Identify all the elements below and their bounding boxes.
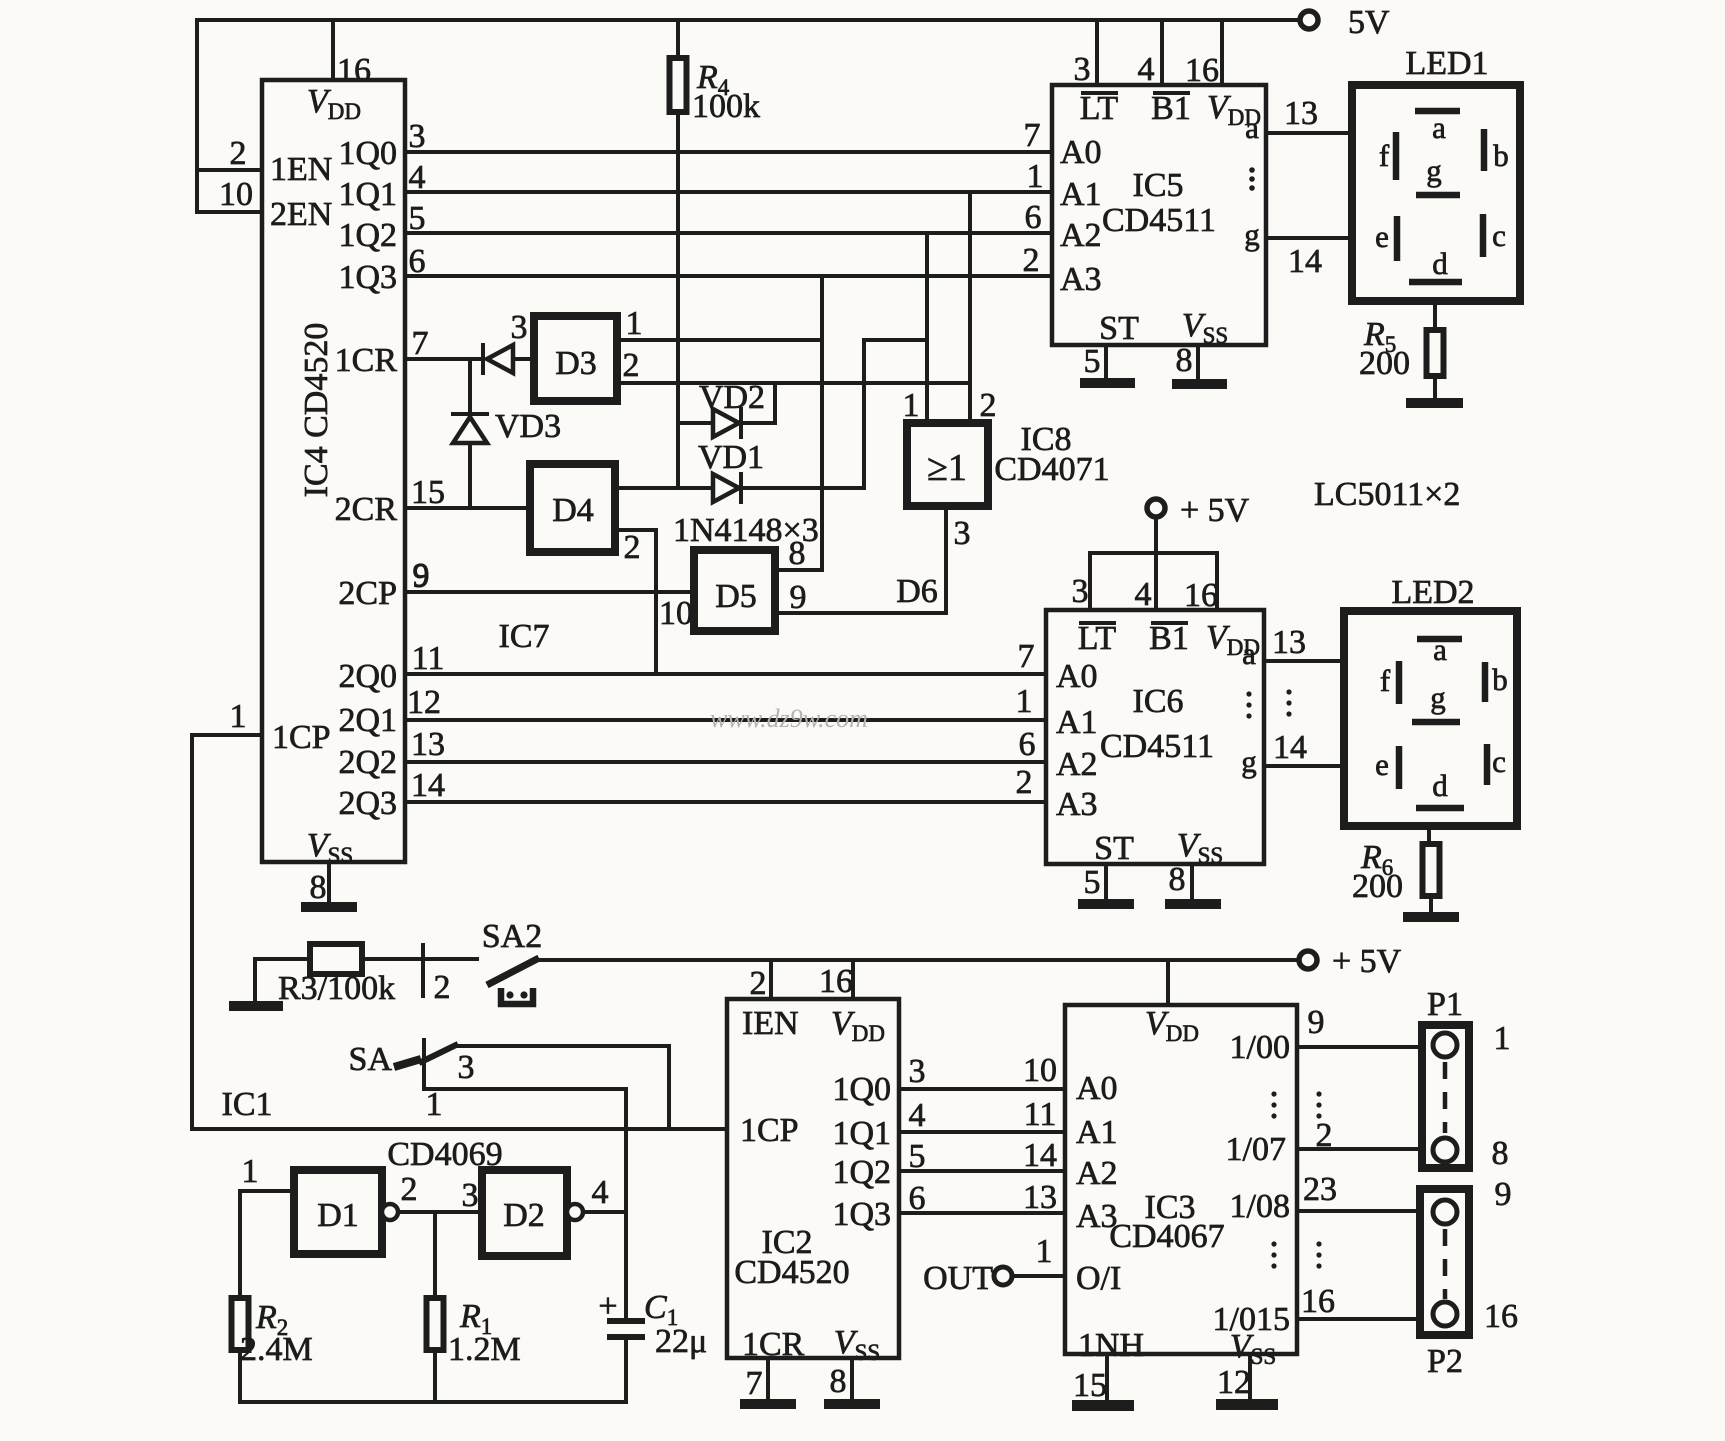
- ground IC2 pin8: [824, 1399, 880, 1409]
- node 5V terminal: [1300, 11, 1318, 29]
- svg-text:A2: A2: [1076, 1155, 1118, 1192]
- svg-text:2: 2: [624, 529, 641, 566]
- svg-text:4: 4: [909, 1097, 926, 1134]
- connector P1: [1422, 1025, 1469, 1168]
- resistor R1: [433, 1212, 437, 1298]
- svg-text:a: a: [1245, 110, 1259, 145]
- svg-text:5V: 5V: [1348, 4, 1390, 41]
- svg-text:5: 5: [909, 1138, 926, 1175]
- wire 1Q1 to IC5 A1: [405, 190, 1052, 194]
- svg-text:1CP: 1CP: [272, 719, 331, 756]
- svg-text:3: 3: [462, 1177, 479, 1214]
- svg-text:A3: A3: [1056, 786, 1098, 823]
- svg-text:2: 2: [623, 347, 640, 384]
- svg-text:15: 15: [1073, 1367, 1107, 1404]
- svg-text:a: a: [1242, 636, 1256, 671]
- svg-text:A1: A1: [1056, 704, 1098, 741]
- svg-text:LC5011×2: LC5011×2: [1314, 476, 1460, 513]
- svg-text:1/07: 1/07: [1226, 1131, 1286, 1168]
- ground IC5 pin8: [1172, 379, 1227, 389]
- svg-text:VD2: VD2: [699, 379, 765, 416]
- svg-text:A1: A1: [1076, 1114, 1118, 1151]
- svg-text:1CR: 1CR: [742, 1326, 805, 1363]
- svg-text:LT: LT: [1080, 90, 1119, 127]
- IC2 CD4520 box: [727, 999, 899, 1358]
- svg-text:c: c: [1492, 744, 1506, 779]
- wire top 5V rail: [197, 18, 1299, 22]
- svg-text:1CR: 1CR: [335, 342, 398, 379]
- svg-text:13: 13: [411, 726, 445, 763]
- svg-text:2Q3: 2Q3: [338, 785, 397, 822]
- wire IC2 pin 7 ground: [766, 1358, 770, 1399]
- svg-text:VD3: VD3: [495, 408, 561, 445]
- svg-text:e: e: [1375, 219, 1389, 254]
- svg-text:200: 200: [1359, 345, 1410, 382]
- svg-text:A0: A0: [1056, 658, 1098, 695]
- svg-text:1: 1: [242, 1153, 259, 1190]
- svg-text:2Q0: 2Q0: [338, 658, 397, 695]
- svg-text:+ 5V: + 5V: [1332, 943, 1402, 980]
- wire left rail drop to 1EN/2EN: [197, 20, 262, 212]
- node dots right of IC3: [1316, 1091, 1321, 1096]
- svg-text:11: 11: [412, 640, 445, 677]
- svg-text:2: 2: [750, 965, 767, 1002]
- resistor R5: [1427, 330, 1444, 376]
- wire R3 right lead to SA2: [362, 957, 477, 961]
- ground IC3 pin15: [1072, 1400, 1134, 1411]
- svg-text:IC7: IC7: [499, 618, 550, 655]
- svg-text:2CP: 2CP: [338, 575, 397, 612]
- svg-text:B1: B1: [1151, 90, 1191, 127]
- svg-text:A0: A0: [1076, 1070, 1118, 1107]
- svg-text:R3/100k: R3/100k: [278, 970, 395, 1007]
- wire IC2 1Q0 to IC3 A0: [899, 1087, 1065, 1091]
- svg-text:2Q2: 2Q2: [338, 744, 397, 781]
- wire IC6 ST pin 5 ground: [1104, 864, 1108, 899]
- svg-text:e: e: [1375, 747, 1389, 782]
- wire rail drop IC2 pin 2: [769, 960, 773, 999]
- wire VD1 cathode up to A2 vertical: [741, 340, 927, 488]
- svg-text:D5: D5: [715, 578, 757, 615]
- svg-text:A2: A2: [1060, 217, 1102, 254]
- svg-text:22μ: 22μ: [655, 1323, 707, 1360]
- ground R6: [1403, 912, 1459, 922]
- gate D4 (IC7): [530, 464, 615, 552]
- svg-text:2: 2: [1023, 242, 1040, 279]
- wire 1Q3 to IC5 A3: [405, 274, 1052, 278]
- wire D5 pin 9 to IC8 pin 3: [775, 506, 946, 613]
- wire VD2 cathode up to D3 pin 2 line: [741, 383, 775, 423]
- svg-text:D6: D6: [896, 573, 938, 610]
- ground IC2 pin7: [740, 1399, 796, 1409]
- svg-text:3: 3: [409, 118, 426, 155]
- svg-text:f: f: [1379, 138, 1390, 173]
- svg-text:ST: ST: [1094, 830, 1134, 867]
- svg-text:g: g: [1241, 744, 1257, 779]
- svg-text:P1: P1: [1427, 986, 1463, 1023]
- svg-text:5: 5: [1084, 864, 1101, 901]
- wire A2 line down to IC8 pin 1: [925, 236, 929, 423]
- wire 2Q1 to IC6 A1: [405, 718, 1046, 722]
- wire 1Q2 to IC5 A2: [405, 231, 1052, 235]
- gate D5 (IC7): [694, 550, 775, 631]
- wire IC2 1Q2 to IC3 A2: [899, 1169, 1065, 1173]
- wire 2CP to D5 pin 10: [405, 590, 694, 594]
- svg-text:SA: SA: [349, 1041, 393, 1078]
- svg-text:A3: A3: [1060, 261, 1102, 298]
- node SA2 fixed contact tick: [421, 945, 425, 996]
- svg-text:2EN: 2EN: [270, 196, 332, 233]
- wire R4 bottom vertical to VD2/VD1 lines: [676, 112, 680, 488]
- diode at D3 input (pin 3): [481, 345, 485, 373]
- wire IC4 pin 8 ground stub: [327, 862, 331, 902]
- svg-text:9: 9: [413, 557, 430, 594]
- resistor R4: [670, 58, 687, 112]
- svg-text:10: 10: [219, 176, 253, 213]
- svg-text:A0: A0: [1060, 134, 1102, 171]
- svg-text:100k: 100k: [692, 88, 760, 125]
- wire rail drop IC2 pin 16: [851, 960, 855, 999]
- svg-text:4: 4: [1135, 576, 1152, 613]
- svg-text:P2: P2: [1427, 1343, 1463, 1380]
- svg-text:1Q1: 1Q1: [832, 1115, 891, 1152]
- svg-text:3: 3: [909, 1053, 926, 1090]
- svg-text:8: 8: [1169, 861, 1186, 898]
- svg-text:3: 3: [954, 515, 971, 552]
- svg-text:a: a: [1433, 632, 1447, 667]
- svg-text:6: 6: [909, 1180, 926, 1217]
- svg-text:16: 16: [337, 52, 371, 89]
- resistor R6: [1423, 844, 1440, 896]
- svg-text:g: g: [1430, 680, 1446, 715]
- wire IC2 pin 8 ground: [850, 1358, 854, 1399]
- wire IC5 a to LED1: [1266, 131, 1351, 135]
- or-gate IC8 CD4071: [907, 423, 988, 506]
- svg-text:10: 10: [659, 595, 693, 632]
- svg-text:2: 2: [980, 387, 997, 424]
- svg-text:14: 14: [1288, 243, 1322, 280]
- svg-text:IC4 CD4520: IC4 CD4520: [298, 323, 335, 498]
- svg-text:8: 8: [830, 1363, 847, 1400]
- svg-text:3: 3: [511, 309, 528, 346]
- IC6 CD4511 box: [1046, 610, 1264, 864]
- IC5 CD4511 box: [1052, 85, 1266, 345]
- connector P2: [1420, 1189, 1469, 1335]
- wire D1 input: [240, 1189, 294, 1193]
- svg-text:13: 13: [1272, 624, 1306, 661]
- svg-text:1CP: 1CP: [740, 1112, 799, 1149]
- svg-text:9: 9: [790, 579, 807, 616]
- wire 1Q0 to IC5 A0: [405, 150, 1052, 154]
- svg-text:2.4M: 2.4M: [240, 1331, 313, 1368]
- wire IC6 a to LED2: [1264, 659, 1344, 663]
- wire R6 to ground: [1429, 896, 1433, 912]
- svg-text:A2: A2: [1056, 746, 1098, 783]
- svg-text:7: 7: [412, 325, 429, 362]
- wire SA contact 1 to oscillator output: [424, 1071, 626, 1321]
- wire IC5 g to LED1: [1266, 236, 1351, 240]
- wire 2Q3 to IC6 A3: [405, 800, 1046, 804]
- svg-text:3: 3: [1074, 51, 1091, 88]
- node +5V terminal for IC6: [1147, 499, 1165, 517]
- svg-text:13: 13: [1284, 95, 1318, 132]
- svg-text:2: 2: [1016, 764, 1033, 801]
- ground IC6 pin5: [1078, 899, 1134, 909]
- wire IC6 g to LED2: [1264, 764, 1344, 768]
- wire D3 pin 2 output: [617, 381, 970, 385]
- wire rail drop to IC4 pin 16: [331, 20, 335, 80]
- svg-text:IC5: IC5: [1133, 167, 1184, 204]
- IC3 CD4067 box: [1065, 1005, 1297, 1354]
- svg-text:D3: D3: [555, 345, 597, 382]
- wire D1 output to D2 input: [398, 1210, 482, 1214]
- wire IC5 ST pin 5 ground: [1104, 345, 1108, 378]
- svg-text:CD4511: CD4511: [1100, 728, 1214, 765]
- svg-text:12: 12: [407, 684, 441, 721]
- diode VD2: [678, 421, 713, 425]
- svg-text:1Q0: 1Q0: [832, 1071, 891, 1108]
- svg-text:CD4520: CD4520: [734, 1254, 849, 1291]
- svg-text:1Q3: 1Q3: [832, 1196, 891, 1233]
- wire rail drop IC3 VDD: [1166, 960, 1170, 1005]
- svg-text:16: 16: [1301, 1283, 1335, 1320]
- svg-text:B1: B1: [1149, 620, 1189, 657]
- svg-text:D4: D4: [552, 492, 594, 529]
- wire IC6 supply bracket pins 3,4,16: [1090, 517, 1217, 610]
- svg-text:2CR: 2CR: [335, 491, 398, 528]
- svg-text:16: 16: [819, 963, 853, 1000]
- svg-text:g: g: [1426, 153, 1442, 188]
- svg-text:12: 12: [1217, 1364, 1251, 1401]
- wire IC6 VSS pin 8 ground: [1190, 864, 1194, 899]
- node +5V terminal bottom: [1299, 951, 1317, 969]
- svg-text:2: 2: [1316, 1117, 1333, 1154]
- svg-text:www.dz9w.com: www.dz9w.com: [710, 704, 868, 733]
- svg-text:1Q2: 1Q2: [832, 1154, 891, 1191]
- ground IC4: [301, 902, 357, 912]
- svg-text:10: 10: [1023, 1052, 1057, 1089]
- svg-text:O/I: O/I: [1076, 1260, 1121, 1297]
- wire SA contact 3 to 1CP net: [457, 1046, 669, 1129]
- wire IC3 1/015 to P2: [1297, 1317, 1422, 1321]
- svg-text:1: 1: [230, 698, 247, 735]
- wire 2CR to D4: [405, 506, 530, 510]
- svg-text:≥1: ≥1: [927, 447, 967, 489]
- svg-text:15: 15: [411, 474, 445, 511]
- svg-text:3: 3: [1072, 573, 1089, 610]
- wire D2 output: [583, 1210, 626, 1214]
- svg-text:1.2M: 1.2M: [448, 1331, 521, 1368]
- svg-text:6: 6: [1025, 199, 1042, 236]
- wire IC3 1/00 to P1: [1297, 1045, 1422, 1049]
- svg-text:1/08: 1/08: [1230, 1188, 1290, 1225]
- svg-text:D1: D1: [317, 1197, 359, 1234]
- svg-text:6: 6: [1019, 726, 1036, 763]
- svg-text:7: 7: [746, 1365, 763, 1402]
- svg-text:8: 8: [310, 869, 327, 906]
- wire LED1 to R5: [1433, 301, 1437, 330]
- ground IC5 pin5: [1080, 378, 1135, 388]
- node dots between IC6 and LED2: [1286, 689, 1291, 694]
- svg-text:b: b: [1493, 138, 1509, 173]
- svg-text:23: 23: [1303, 1171, 1337, 1208]
- svg-text:1Q1: 1Q1: [338, 176, 397, 213]
- svg-text:1Q3: 1Q3: [338, 259, 397, 296]
- wire rail drops to IC5 pins 3,4,16: [1097, 20, 1222, 85]
- svg-text:3: 3: [458, 1049, 475, 1086]
- svg-text:1NH: 1NH: [1078, 1327, 1144, 1364]
- resistor R2: [238, 1191, 242, 1298]
- svg-text:1: 1: [1036, 1233, 1053, 1270]
- wire +5V rail bottom: [537, 958, 1299, 962]
- svg-text:CD4511: CD4511: [1102, 202, 1216, 239]
- resistor R3: [310, 944, 362, 974]
- wire IC3 pin 12 ground: [1248, 1354, 1252, 1399]
- svg-text:1/015: 1/015: [1213, 1301, 1290, 1338]
- svg-text:2: 2: [230, 135, 247, 172]
- svg-text:1: 1: [903, 387, 920, 424]
- svg-text:LED2: LED2: [1391, 574, 1474, 611]
- svg-text:9: 9: [1308, 1004, 1325, 1041]
- svg-text:2Q1: 2Q1: [338, 702, 397, 739]
- wire 1CP net horizontal: [192, 1127, 727, 1131]
- svg-text:9: 9: [1495, 1176, 1512, 1213]
- svg-text:1Q2: 1Q2: [338, 217, 397, 254]
- diode VD1: [713, 474, 739, 502]
- svg-text:7: 7: [1018, 638, 1035, 675]
- svg-text:IEN: IEN: [742, 1005, 799, 1042]
- svg-text:IC6: IC6: [1133, 683, 1184, 720]
- svg-text:4: 4: [592, 1174, 609, 1211]
- svg-text:1N4148×3: 1N4148×3: [673, 512, 819, 549]
- svg-text:SA2: SA2: [482, 918, 542, 955]
- inverter D1: [294, 1170, 382, 1254]
- svg-text:1: 1: [626, 305, 643, 342]
- wire IC3 1/08 to P2: [1297, 1209, 1422, 1213]
- ground R3: [229, 1001, 283, 1011]
- wire R3 left lead to ground: [255, 959, 310, 1001]
- wire oscillator bottom rail: [240, 1400, 626, 1404]
- svg-text:b: b: [1492, 662, 1508, 697]
- svg-text:200: 200: [1352, 868, 1403, 905]
- inverter D2: [482, 1170, 567, 1256]
- svg-text:2: 2: [434, 969, 451, 1006]
- svg-text:8: 8: [1176, 342, 1193, 379]
- svg-text:d: d: [1432, 768, 1448, 803]
- wire D3 pin 1 output: [617, 338, 822, 342]
- wire D5 pin 8 to A3 vertical: [775, 568, 822, 572]
- svg-text:LED1: LED1: [1405, 45, 1488, 82]
- svg-text:g: g: [1244, 217, 1260, 252]
- svg-text:13: 13: [1023, 1179, 1057, 1216]
- wire 2Q0 to IC6 A0: [405, 672, 1046, 676]
- svg-text:IC1: IC1: [222, 1086, 273, 1123]
- wire D4 output to VD1: [615, 486, 713, 490]
- wire IC2 1Q1 to IC3 A1: [899, 1130, 1065, 1134]
- svg-text:d: d: [1432, 246, 1448, 281]
- svg-text:+: +: [598, 1288, 617, 1325]
- svg-text:CD4071: CD4071: [994, 451, 1109, 488]
- wire R5 to ground: [1433, 376, 1437, 398]
- svg-text:1: 1: [1494, 1020, 1511, 1057]
- ground IC3 pin12: [1216, 1399, 1278, 1410]
- ground IC6 pin8: [1165, 899, 1221, 909]
- display LED1: [1352, 85, 1520, 301]
- svg-text:4: 4: [1138, 51, 1155, 88]
- ground R5: [1406, 398, 1463, 408]
- wire LED2 to R6: [1427, 826, 1431, 844]
- wire OUT to IC3 O/I: [1013, 1274, 1065, 1278]
- svg-text:+ 5V: + 5V: [1180, 492, 1250, 529]
- svg-text:D2: D2: [503, 1197, 545, 1234]
- svg-text:c: c: [1492, 218, 1506, 253]
- wire A3 line down to D5 pin 8: [820, 276, 824, 570]
- wire rail drop to R4: [676, 20, 680, 58]
- svg-text:11: 11: [1024, 1096, 1057, 1133]
- svg-text:14: 14: [1273, 729, 1307, 766]
- svg-text:1Q0: 1Q0: [338, 135, 397, 172]
- svg-text:5: 5: [1084, 343, 1101, 380]
- svg-text:LT: LT: [1078, 620, 1117, 657]
- IC4 CD4520 box: [262, 80, 405, 862]
- svg-text:a: a: [1432, 110, 1446, 145]
- wire IC4 1CP to left vertical: [192, 735, 262, 1129]
- svg-text:OUT: OUT: [923, 1260, 993, 1297]
- wire IC5 VSS pin 8 ground: [1196, 345, 1200, 379]
- display LED2: [1344, 611, 1517, 826]
- svg-text:1: 1: [1016, 683, 1033, 720]
- svg-text:CD4067: CD4067: [1109, 1218, 1224, 1255]
- wire IC3 1/07 to P1: [1297, 1147, 1422, 1151]
- wire IC2 1Q3 to IC3 A3: [899, 1211, 1065, 1215]
- svg-text:1EN: 1EN: [270, 151, 332, 188]
- svg-text:f: f: [1380, 663, 1391, 698]
- wire 2Q2 to IC6 A2: [405, 760, 1046, 764]
- svg-text:1: 1: [1027, 158, 1044, 195]
- wire IC3 pin 15 ground: [1105, 1354, 1109, 1400]
- wire A1 line down to IC8 pin 2: [968, 192, 972, 423]
- wire 1CR to D3 input diode: [405, 357, 481, 361]
- svg-text:14: 14: [411, 767, 445, 804]
- wire D4 pin 2 down to 2Q0 line: [615, 530, 656, 674]
- svg-text:16: 16: [1484, 1298, 1518, 1335]
- svg-text:7: 7: [1024, 117, 1041, 154]
- svg-text:14: 14: [1023, 1137, 1057, 1174]
- gate D3 (IC7): [534, 316, 617, 401]
- svg-text:1: 1: [426, 1086, 443, 1123]
- diode VD3: [468, 359, 472, 413]
- svg-text:A1: A1: [1060, 176, 1102, 213]
- svg-text:2: 2: [401, 1171, 418, 1208]
- svg-text:VD1: VD1: [698, 439, 764, 476]
- svg-text:1/00: 1/00: [1230, 1029, 1290, 1066]
- capacitor C1: [607, 1321, 645, 1337]
- svg-text:8: 8: [1492, 1135, 1509, 1172]
- svg-text:ST: ST: [1099, 310, 1139, 347]
